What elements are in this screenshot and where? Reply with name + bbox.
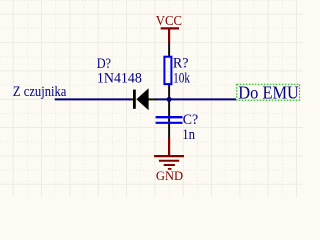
resistor R? pin 2 (bottom) bbox=[168, 85, 170, 99]
port Do EMU bbox=[237, 82, 300, 102]
svg-text:GND: GND bbox=[156, 169, 183, 183]
svg-text:C?: C? bbox=[183, 112, 199, 128]
resistor R? pin 1 (top) bbox=[168, 43, 170, 57]
wire: vertical through junction to capacitor bbox=[168, 99, 170, 124]
wire junction node bbox=[167, 97, 172, 102]
resistor R? body bbox=[164, 57, 171, 84]
wire: horizontal net from Z czujnika to Do EMU bbox=[55, 98, 131, 100]
wire: horizontal net segment diode to junction and Do EMU bbox=[155, 98, 236, 100]
diode D? cathode bar bbox=[133, 90, 136, 109]
capacitor C? pin 2 (bottom) bbox=[168, 124, 170, 138]
svg-text:R?: R? bbox=[173, 55, 189, 71]
diode D? pin leads bbox=[129, 98, 134, 100]
ground GND symbol bbox=[154, 138, 184, 183]
svg-text:VCC: VCC bbox=[156, 13, 182, 28]
svg-text:10k: 10k bbox=[173, 70, 190, 86]
capacitor C? plates bbox=[156, 116, 183, 118]
svg-text:1N4148: 1N4148 bbox=[97, 70, 142, 86]
grid (decorative) bbox=[0, 0, 303, 197]
svg-text:Z czujnika: Z czujnika bbox=[13, 84, 67, 100]
svg-text:Do EMU: Do EMU bbox=[238, 82, 299, 102]
power VCC symbol bbox=[156, 13, 182, 42]
diode D? anode triangle bbox=[136, 88, 148, 110]
svg-text:1n: 1n bbox=[182, 127, 195, 143]
